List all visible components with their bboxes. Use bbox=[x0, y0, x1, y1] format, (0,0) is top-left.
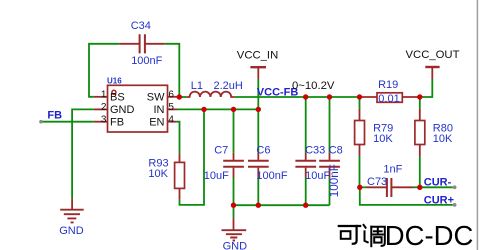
junction C33 on ground rail bbox=[303, 203, 308, 208]
junction R79 on output rail bbox=[357, 94, 362, 99]
wire C33 bottom bbox=[305, 178, 307, 206]
wire C73 left stub bbox=[360, 186, 367, 188]
svg-text:2.2uH: 2.2uH bbox=[214, 80, 243, 92]
wire pin2 GND to left ground drop bbox=[72, 109, 94, 198]
svg-text:10K: 10K bbox=[373, 133, 393, 145]
wire CUR+ bbox=[360, 187, 453, 205]
wire C34 right loop down to SW node bbox=[165, 44, 180, 97]
svg-text:C8: C8 bbox=[329, 144, 343, 156]
svg-text:C33: C33 bbox=[305, 144, 325, 156]
junction R80/C73/CUR- bbox=[417, 185, 422, 190]
title hanzi TIAO (adjust) bbox=[364, 225, 385, 246]
svg-text:10uF: 10uF bbox=[305, 170, 330, 182]
title hanzi KE (adjustable) bbox=[339, 226, 360, 244]
svg-text:SW: SW bbox=[147, 91, 165, 103]
pin 5 stub bbox=[168, 108, 178, 110]
capacitor C8 bbox=[329, 153, 331, 178]
wire C73 right stub bbox=[413, 186, 420, 188]
svg-text:FB: FB bbox=[110, 117, 124, 129]
svg-text:2: 2 bbox=[101, 102, 107, 113]
right window edge line bbox=[477, 0, 479, 250]
wire output rail right to VCC_OUT bbox=[418, 79, 432, 97]
resistor R80 bbox=[419, 109, 421, 156]
junction R93 loop on IN rail bbox=[201, 107, 206, 112]
wire ground rail bbox=[234, 204, 330, 206]
port dot CUR- bbox=[453, 185, 457, 189]
ground symbol center bbox=[233, 218, 235, 230]
svg-text:L1: L1 bbox=[191, 80, 203, 92]
pin 4 stub bbox=[168, 121, 177, 123]
wire IN rail pin5 bbox=[177, 108, 258, 110]
wire CUR- bbox=[420, 186, 453, 188]
svg-text:6: 6 bbox=[168, 89, 174, 100]
junction C6 on ground rail bbox=[256, 203, 261, 208]
junction C7/GND on ground rail bbox=[231, 203, 236, 208]
svg-text:C7: C7 bbox=[214, 144, 228, 156]
svg-text:5: 5 bbox=[168, 102, 174, 113]
svg-text:4: 4 bbox=[168, 114, 174, 125]
svg-text:DC-DC: DC-DC bbox=[385, 220, 474, 250]
wire R80 top bbox=[419, 97, 421, 109]
svg-text:BS: BS bbox=[110, 91, 125, 103]
capacitor C34 bbox=[119, 43, 165, 45]
svg-text:CUR-: CUR- bbox=[424, 176, 452, 188]
power symbol VCC_OUT bbox=[425, 66, 439, 68]
junction SW/L1/C34 bbox=[177, 94, 182, 99]
wire center ground drop bbox=[233, 205, 235, 218]
svg-text:IN: IN bbox=[154, 104, 165, 116]
wire R79 top bbox=[359, 97, 361, 109]
svg-text:10K: 10K bbox=[148, 168, 168, 180]
power symbol VCC_IN bbox=[250, 66, 266, 68]
wire R93 bottom loop up to IN rail bbox=[180, 109, 205, 204]
port dot CUR+ bbox=[453, 203, 457, 207]
pin 1 stub bbox=[94, 96, 108, 98]
capacitor C6 bbox=[257, 153, 259, 178]
svg-text:GND: GND bbox=[110, 104, 135, 116]
svg-text:R19: R19 bbox=[378, 79, 398, 91]
wire SW node to L1 bbox=[177, 96, 187, 98]
ground symbol left bbox=[71, 199, 73, 210]
svg-text:VCC_IN: VCC_IN bbox=[237, 49, 278, 61]
svg-text:U16: U16 bbox=[107, 77, 122, 86]
svg-text:FB: FB bbox=[47, 109, 62, 121]
wire VCC_IN riser bbox=[257, 79, 259, 109]
wire C33 top bbox=[305, 97, 307, 153]
svg-text:0.01: 0.01 bbox=[378, 93, 399, 105]
port dot FB bbox=[39, 120, 43, 124]
svg-text:C6: C6 bbox=[256, 144, 270, 156]
wire R79 bottom bbox=[359, 156, 361, 187]
svg-text:10K: 10K bbox=[433, 133, 453, 145]
wire FB port to pin3 bbox=[41, 121, 94, 123]
resistor R79 bbox=[359, 109, 361, 156]
pin 3 stub bbox=[94, 121, 108, 123]
svg-text:10uF: 10uF bbox=[204, 170, 229, 182]
svg-text:3: 3 bbox=[101, 114, 107, 125]
svg-text:0~10.2V: 0~10.2V bbox=[292, 80, 335, 92]
wire C6 top bbox=[257, 109, 259, 152]
wire C7 bottom bbox=[233, 178, 235, 206]
capacitor C7 bbox=[233, 153, 235, 178]
wire EN to R93 top bbox=[176, 122, 179, 154]
svg-text:VCC_OUT: VCC_OUT bbox=[406, 49, 460, 61]
pin 1 marker circle bbox=[112, 90, 116, 94]
junction C33 on output rail bbox=[303, 94, 308, 99]
svg-text:100nF: 100nF bbox=[329, 164, 341, 197]
svg-text:100nF: 100nF bbox=[256, 170, 287, 182]
resistor R19 bbox=[362, 96, 418, 98]
svg-text:GND: GND bbox=[59, 225, 83, 237]
capacitor C33 bbox=[305, 153, 307, 178]
op-amp U16 body bbox=[108, 85, 168, 132]
pin 2 stub bbox=[94, 108, 108, 110]
wire R80 bottom bbox=[419, 156, 421, 187]
wire C34 left loop to pin1 bbox=[89, 44, 119, 97]
svg-text:EN: EN bbox=[149, 117, 164, 129]
junction C7 on IN rail bbox=[231, 107, 236, 112]
wire C7 top bbox=[233, 109, 235, 152]
pin 6 stub bbox=[168, 96, 178, 98]
wire C8 top bbox=[329, 97, 331, 153]
junction R79/C73/CUR+ bbox=[357, 185, 362, 190]
inductor L1 bbox=[187, 92, 235, 97]
wire output rail left bbox=[235, 96, 362, 98]
svg-text:100nF: 100nF bbox=[131, 55, 162, 67]
junction C8 on output rail bbox=[327, 94, 332, 99]
svg-text:1nF: 1nF bbox=[383, 164, 402, 176]
capacitor C73 bbox=[367, 186, 414, 188]
resistor R93 bbox=[179, 153, 181, 199]
svg-text:GND: GND bbox=[223, 241, 248, 250]
svg-text:CUR+: CUR+ bbox=[424, 195, 454, 207]
svg-text:1: 1 bbox=[101, 89, 107, 100]
svg-text:C73: C73 bbox=[367, 176, 387, 188]
junction VCC_IN/C6 on IN rail bbox=[256, 107, 261, 112]
junction R80 on output rail bbox=[417, 94, 422, 99]
wire C8 bottom to ground rail corner bbox=[329, 178, 331, 206]
svg-text:C34: C34 bbox=[131, 20, 151, 32]
wire C6 bottom bbox=[257, 178, 259, 206]
